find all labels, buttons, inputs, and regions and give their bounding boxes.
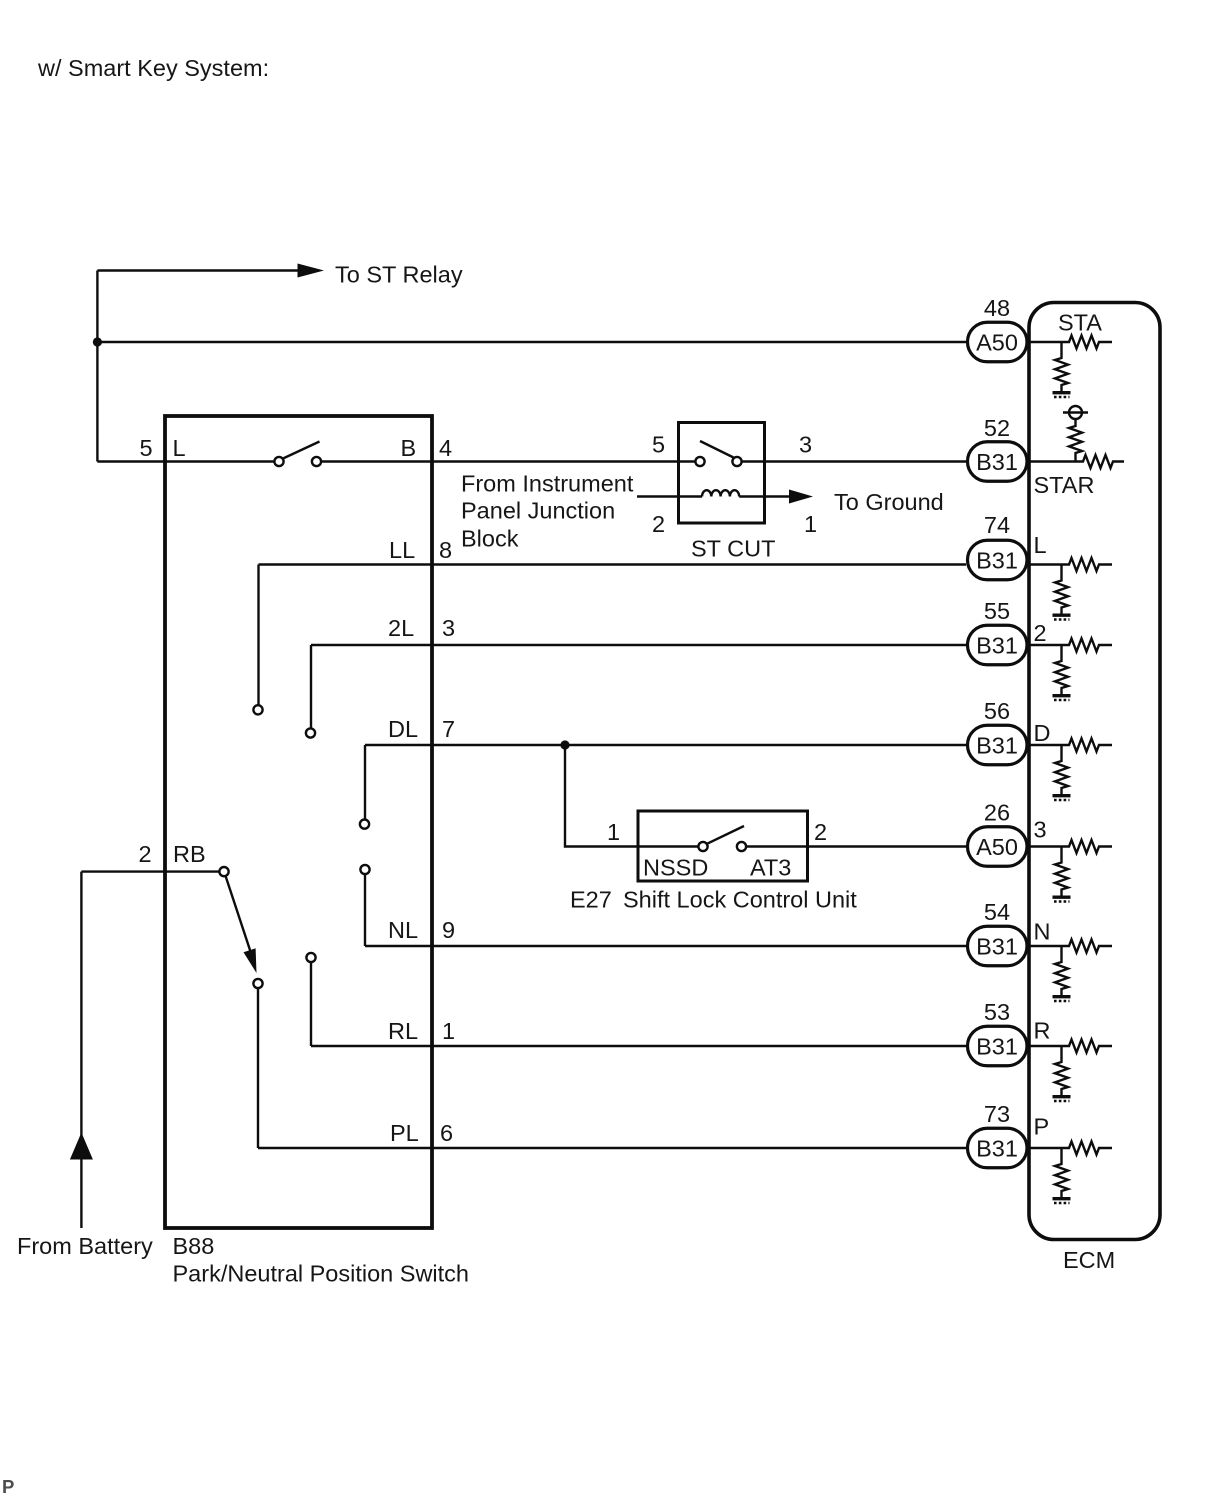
svg-text:48: 48 [984,295,1010,321]
wire: ST CUT pin 3 to ECM pin 52 [742,460,967,462]
resistor (pull-down) at ECM pin 56 [1055,745,1068,794]
resistor (pull-down) at ECM pin 48 [1055,342,1068,391]
ECM box [1029,303,1160,1240]
wire: STA row to ECM pin 48 [97,341,966,343]
connector B31 pin 52 oval [968,442,1028,482]
connector box B88 Park/Neutral Position Switch [165,416,432,1228]
svg-text:RB: RB [173,841,206,867]
arrowhead: To Ground [789,490,813,504]
moving contact arm (selector) [226,877,251,953]
svg-text:3: 3 [442,615,455,641]
resistor (horizontal) at ECM pin 48 [1029,336,1112,349]
svg-text:From Battery: From Battery [17,1233,153,1259]
ground at ECM pin 54 [1053,997,1071,1001]
box E27 Shift Lock Control Unit [638,811,808,881]
svg-text:56: 56 [984,698,1010,724]
resistor (horizontal) at ECM pin 53 [1029,1040,1112,1053]
resistor (pull-down) at ECM pin 26 [1055,847,1068,896]
svg-text:54: 54 [984,899,1010,925]
svg-text:From Instrument: From Instrument [461,471,634,497]
svg-text:74: 74 [984,512,1010,538]
node: junction DL wire to shift lock branch [560,740,569,749]
connector A50 pin 48 oval [968,322,1028,362]
contact stub 2L (upper) with open contact circle [306,645,315,738]
svg-text:2: 2 [139,841,152,867]
label: From Instrument Panel Junction Block [461,471,634,552]
svg-text:R: R [1034,1018,1051,1044]
svg-text:2L: 2L [388,615,414,641]
svg-text:Block: Block [461,526,519,552]
relay blade (ST CUT) [700,441,734,458]
svg-text:2: 2 [1034,620,1047,646]
svg-text:RL: RL [388,1018,418,1044]
svg-text:Shift Lock Control Unit: Shift Lock Control Unit [623,887,857,913]
ground at ECM pin 73 [1053,1199,1071,1203]
svg-text:73: 73 [984,1101,1010,1127]
wire: 2L row to ECM pin 55 [311,644,966,646]
svg-text:Panel Junction: Panel Junction [461,498,615,524]
arrowhead: From Battery (pointing up) [70,1133,93,1160]
svg-text:55: 55 [984,598,1010,624]
connector B31 pin 54 oval [968,926,1028,966]
svg-text:5: 5 [140,435,153,461]
wire: from instrument panel junction block to relay coil [637,495,702,497]
svg-text:P: P [1034,1114,1050,1140]
svg-text:9: 9 [442,917,455,943]
svg-text:6: 6 [440,1120,453,1146]
svg-text:L: L [173,435,186,461]
svg-text:2: 2 [652,511,665,537]
wire: RL row to ECM pin 53 [311,1045,966,1047]
resistor (horizontal) at ECM pin 52 [1029,455,1124,468]
wire: horizontal to ST Relay arrow [97,269,298,271]
arrowhead: selector arm [244,948,257,973]
svg-text:B31: B31 [976,1136,1018,1162]
ground at ECM pin 56 [1053,796,1071,800]
switch SW1 blade (B88 L-B) [283,442,320,459]
svg-text:8: 8 [439,537,452,563]
connector B31 pin 56 oval [968,725,1028,765]
svg-text:LL: LL [389,537,415,563]
ground at ECM pin 48 [1053,393,1071,397]
connector A50 pin 26 oval [968,827,1028,867]
resistor (pull-down) at ECM pin 54 [1055,946,1068,995]
wire: NL row to ECM pin 54 [365,945,966,947]
wire: battery riser [80,872,82,1228]
svg-text:STA: STA [1058,310,1102,336]
resistor (pull-up) at ECM pin 52 [1069,419,1082,462]
svg-text:5: 5 [652,432,665,458]
svg-text:Park/Neutral Position Switch: Park/Neutral Position Switch [173,1261,469,1287]
resistor (horizontal) at ECM pin 56 [1029,739,1112,752]
svg-text:B31: B31 [976,548,1018,574]
arrowhead: To ST Relay [298,264,325,278]
contact stub PL (lower) with open contact circle [253,979,262,1148]
wire: DL row to ECM pin 56 [365,744,966,746]
svg-text:NSSD: NSSD [643,855,708,881]
svg-text:E27: E27 [570,887,612,913]
contact stub L (upper) with open contact circle [253,565,262,715]
svg-text:52: 52 [984,415,1010,441]
contact stub RL (lower) with open contact circle [306,953,315,1046]
svg-text:B31: B31 [976,633,1018,659]
svg-text:1: 1 [804,511,817,537]
svg-text:A50: A50 [976,330,1018,356]
switch contact circles (E27 NSSD-AT3) [698,842,746,851]
ground at ECM pin 55 [1053,696,1071,700]
ground at ECM pin 53 [1053,1097,1071,1101]
svg-text:B31: B31 [976,934,1018,960]
svg-text:AT3: AT3 [750,855,791,881]
moving contact pivot circle (RB) [219,867,228,876]
connector B31 pin 53 oval [968,1026,1028,1066]
svg-text:7: 7 [442,716,455,742]
svg-text:L: L [1034,532,1047,558]
power supply symbol (circle) at ECM pin 52 [1063,406,1088,419]
wire: E27 pin 2 to ECM pin 26 [746,845,966,847]
wire: branch from DL junction down to NSSD [565,745,698,847]
ground at ECM pin 26 [1053,897,1071,901]
wire: LL row from contact stub to ECM pin 74 [259,563,967,565]
resistor (pull-down) at ECM pin 73 [1055,1148,1068,1197]
resistor (pull-down) at ECM pin 53 [1055,1046,1068,1095]
svg-text:53: 53 [984,999,1010,1025]
node: junction of feed with STA wire [93,337,102,346]
wire: switch to B88 pin 4 and on to ST CUT pin 5 [322,460,696,462]
contact stub NL (lower) with open contact circle [360,865,369,946]
resistor (horizontal) at ECM pin 74 [1029,558,1112,571]
svg-text:N: N [1034,919,1051,945]
resistor (horizontal) at ECM pin 55 [1029,639,1112,652]
resistor (pull-down) at ECM pin 74 [1055,565,1068,614]
svg-text:STAR: STAR [1034,472,1095,498]
ground at ECM pin 74 [1053,615,1071,619]
relay box ST CUT [679,423,765,524]
svg-text:DL: DL [388,716,418,742]
relay coil (ST CUT) [702,490,739,496]
svg-text:To ST Relay: To ST Relay [335,262,463,288]
connector B31 pin 73 oval [968,1128,1028,1168]
svg-text:B88: B88 [173,1233,215,1259]
svg-text:D: D [1034,720,1051,746]
svg-text:B: B [401,435,417,461]
svg-text:3: 3 [1034,817,1047,843]
resistor (pull-down) at ECM pin 55 [1055,645,1068,694]
wire: RB feed from battery riser to moving contact [81,870,219,872]
contact stub DL (upper) with open contact circle [360,745,369,829]
svg-text:B31: B31 [976,1034,1018,1060]
svg-text:4: 4 [439,435,452,461]
connector B31 pin 74 oval [968,540,1028,580]
connector B31 pin 55 oval [968,625,1028,665]
switch blade (E27) [707,826,744,844]
resistor (horizontal) at ECM pin 73 [1029,1142,1112,1155]
resistor (horizontal) at ECM pin 54 [1029,940,1112,953]
svg-text:26: 26 [984,800,1010,826]
svg-text:B31: B31 [976,733,1018,759]
wire: relay coil to ground arrow [739,495,789,497]
svg-text:2: 2 [814,819,827,845]
svg-text:w/ Smart Key System:: w/ Smart Key System: [37,55,269,81]
svg-text:1: 1 [607,819,620,845]
svg-text:P: P [2,1476,14,1497]
svg-text:B31: B31 [976,449,1018,475]
svg-text:1: 1 [442,1018,455,1044]
svg-text:ST CUT: ST CUT [691,536,775,562]
svg-text:ECM: ECM [1063,1247,1115,1273]
wire: vertical feed from To ST Relay down to pin 5 of B88 [96,271,98,462]
resistor (horizontal) at ECM pin 26 [1029,840,1112,853]
switch SW1 contact circles (B88 L-B) [274,457,321,466]
svg-text:A50: A50 [976,834,1018,860]
relay contact circles (ST CUT) [695,457,741,466]
wire: into B88 pin 5 to switch contact [97,460,274,462]
svg-text:3: 3 [799,432,812,458]
svg-text:To Ground: To Ground [834,489,944,515]
wire: PL row to ECM pin 73 [258,1147,966,1149]
svg-text:PL: PL [390,1120,419,1146]
svg-text:NL: NL [388,917,418,943]
